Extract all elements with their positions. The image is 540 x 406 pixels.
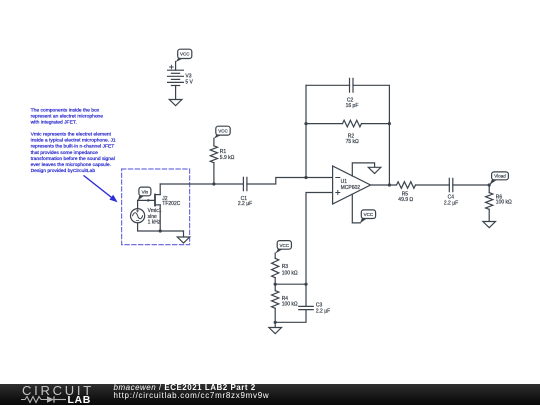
C1 labels: [238, 196, 252, 207]
svg-text:5 V: 5 V: [185, 79, 193, 85]
wire C2 top left: [306, 84, 350, 86]
wire gate: [138, 199, 155, 201]
CircuitLab logo: [22, 383, 94, 398]
wire battery to ground: [175, 86, 177, 100]
node junction Vload: [488, 183, 491, 186]
svg-text:represent an electret micropho: represent an electret microphone: [31, 113, 104, 119]
svg-text:VCC: VCC: [218, 129, 228, 134]
svg-text:5.9 kΩ: 5.9 kΩ: [220, 155, 235, 161]
wire R1 to main: [213, 163, 215, 184]
R4 labels: [282, 296, 298, 308]
wire C3 bottom: [275, 310, 306, 323]
svg-text:MCP602: MCP602: [341, 185, 361, 191]
resistor R4: [272, 291, 279, 309]
wire node to R4: [274, 284, 276, 290]
U1 labels: [341, 179, 361, 191]
svg-text:Vload: Vload: [494, 174, 506, 179]
J2 labels: [162, 196, 180, 207]
ground (op-amp): [368, 167, 381, 173]
wire VCC to R3: [274, 253, 276, 258]
svg-text:R3: R3: [282, 264, 289, 270]
wire to mic ground: [183, 231, 185, 237]
wire op-amp V- pin to ground: [352, 163, 374, 176]
svg-text:Vin: Vin: [142, 189, 149, 194]
svg-text:2.2 µF: 2.2 µF: [316, 308, 330, 314]
wire R3 to node: [274, 278, 276, 285]
VCC flag (battery V3): [176, 49, 192, 62]
capacitor C3: [299, 306, 313, 309]
battery V3: [168, 70, 184, 85]
wire C3 branch down: [305, 284, 307, 306]
svg-text:The components inside the box: The components inside the box: [31, 107, 100, 113]
wire op-amp output: [371, 184, 397, 186]
wire source bottom: [138, 223, 184, 231]
svg-text:100 kΩ: 100 kΩ: [282, 302, 298, 308]
resistor R5: [397, 182, 416, 189]
svg-text:1 kHz: 1 kHz: [148, 220, 161, 226]
wire Vload to R6: [488, 185, 490, 193]
resistor R1: [210, 146, 217, 163]
svg-text:100 kΩ: 100 kΩ: [496, 200, 512, 206]
wire to ground R4: [274, 322, 276, 327]
wire R2 right: [362, 123, 390, 125]
wire VCC to R1: [213, 138, 215, 146]
svg-text:16 pF: 16 pF: [346, 103, 359, 109]
svg-text:inside a typical electret micr: inside a typical electret microphone. J1: [31, 138, 116, 144]
C2 labels: [346, 97, 359, 109]
C3 labels: [316, 303, 330, 315]
wire R5 to C4: [416, 184, 450, 186]
svg-text:TF202C: TF202C: [162, 201, 180, 207]
capacitor C1: [243, 177, 247, 190]
VCC flag (R3): [275, 241, 291, 254]
dashed microphone box: [122, 169, 190, 245]
wire Vin node to source top: [137, 200, 139, 208]
capacitor C2: [350, 78, 354, 92]
svg-text:represents the built-in n-chan: represents the built-in n-channel JFET: [31, 144, 115, 150]
wire C2 top right: [353, 85, 389, 185]
svg-text:Design provided byCircuitLab: Design provided byCircuitLab: [31, 168, 96, 174]
R3 labels: [282, 264, 298, 276]
svg-text:ever leaves the microphone cap: ever leaves the microphone capsule.: [31, 162, 111, 168]
wire R3R4 node to C3 branch: [275, 283, 306, 285]
ground (battery): [169, 100, 182, 106]
capacitor C4: [449, 178, 453, 191]
wire VCC to battery: [175, 62, 177, 71]
wire main node: [160, 183, 243, 185]
wire R6 to ground: [488, 209, 490, 221]
node junction R2 left: [304, 122, 307, 125]
node junction source/ground: [159, 229, 162, 232]
svg-text:2.2 µF: 2.2 µF: [444, 201, 458, 207]
svg-text:VCC: VCC: [180, 52, 190, 57]
svg-text:with integrated JFET.: with integrated JFET.: [31, 120, 77, 126]
Vload flag: [489, 172, 508, 185]
svg-text:49.9 Ω: 49.9 Ω: [398, 197, 413, 203]
wire C4 to Vload node: [453, 184, 489, 186]
op-amp U1: [333, 166, 371, 204]
node junction output: [388, 183, 391, 186]
Vmic1 labels: [148, 208, 162, 226]
svg-text:75 kΩ: 75 kΩ: [346, 139, 359, 145]
Vin flag: [138, 187, 151, 201]
ground (microphone): [177, 237, 189, 243]
wire R2 left: [306, 123, 343, 125]
node junction R3/R4: [274, 283, 277, 286]
resistor R6: [486, 193, 493, 210]
wire C1 to op-amp minus (step): [247, 178, 333, 185]
JFET J2 gate arrow: [148, 199, 152, 202]
svg-text:VCC: VCC: [280, 243, 290, 248]
VCC flag (op-amp): [360, 210, 376, 223]
svg-text:2.2 µF: 2.2 µF: [238, 201, 252, 207]
transistor J2: [154, 194, 160, 207]
svg-text:transformation before the soun: transformation before the sound signal: [31, 156, 115, 162]
VCC flag (R1): [214, 126, 230, 138]
svg-text:VCC: VCC: [364, 212, 374, 217]
wire feedback left vertical: [305, 85, 307, 177]
R2 labels: [346, 133, 359, 145]
resistor R2: [343, 120, 362, 127]
ground (R3R4): [269, 328, 282, 334]
source Vmic1: [131, 209, 145, 223]
node junction bottom: [274, 321, 277, 324]
R6 labels: [496, 195, 512, 206]
wire plus input: [306, 193, 333, 285]
svg-text:100 kΩ: 100 kΩ: [282, 270, 298, 276]
battery V3 plus sign: [170, 65, 174, 69]
wire R4 to bottom: [274, 308, 276, 322]
battery V3 labels: [185, 74, 193, 86]
node junction feedback left: [304, 176, 307, 179]
node junction R2 right: [388, 122, 391, 125]
ground (R6): [483, 222, 496, 228]
wire J2 source down: [159, 205, 161, 231]
R1 labels: [220, 149, 235, 161]
svg-text:that provides some impedance: that provides some impedance: [31, 150, 98, 156]
C4 labels: [444, 195, 458, 207]
footer bar: [0, 384, 540, 405]
wire J2 drain up: [159, 184, 161, 195]
R5 labels: [398, 191, 413, 203]
annotation text block: [31, 107, 116, 173]
node junction plus branch: [304, 283, 307, 286]
resistor R3: [272, 258, 279, 277]
annotation arrow: [84, 176, 118, 202]
svg-text:Vmic represents the electret e: Vmic represents the electret element: [31, 132, 112, 138]
wire op-amp V+ pin: [352, 194, 360, 223]
node junction R1: [212, 182, 215, 185]
